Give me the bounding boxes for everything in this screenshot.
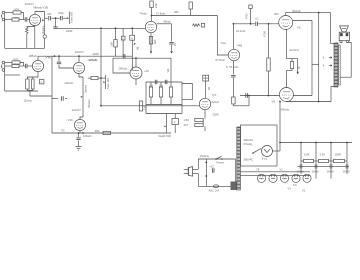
svg-text:Y8: Y8: [256, 167, 260, 171]
node: [248, 95, 250, 97]
capacitor V5 grid: [246, 93, 248, 97]
svg-text:20/450: 20/450: [312, 171, 320, 173]
heater label V4: [256, 167, 260, 171]
label 22.3mA: [290, 48, 299, 52]
capacitor C2 line: [210, 165, 215, 172]
resistor 33K: [103, 131, 111, 134]
label 200R: [335, 153, 341, 157]
wire: [30, 91, 52, 96]
svg-text:115vdc: 115vdc: [83, 134, 92, 138]
node: [205, 162, 207, 164]
capacitor C6: [123, 54, 125, 58]
wire riser1: [300, 143, 302, 162]
transformer OT core: [334, 43, 340, 87]
svg-text:47K: 47K: [14, 7, 20, 11]
svg-text:74vdc: 74vdc: [140, 11, 148, 15]
label Power: [217, 160, 225, 164]
wire: [5, 62, 12, 64]
wire osc right: [181, 82, 183, 114]
wire: [79, 131, 81, 133]
wire: [80, 117, 83, 119]
resistor 47K label: [14, 7, 20, 11]
resistor 3.3K: [316, 159, 331, 162]
bus label 220K: [93, 52, 100, 56]
potentiometer Tone label: [70, 12, 74, 23]
label 300vdc: [292, 9, 301, 13]
svg-text:220K: 220K: [66, 29, 73, 33]
svg-text:470K: 470K: [246, 13, 249, 19]
capacitor C1: [25, 17, 27, 21]
potentiometer Treble: [103, 75, 105, 89]
label 300VAC a: [244, 138, 254, 146]
wire: [88, 77, 91, 79]
svg-text:220K: 220K: [93, 52, 100, 56]
wire tick: [312, 63, 319, 65]
node: [82, 132, 84, 134]
wire PI out top: [233, 23, 255, 25]
pot terminal circle: [43, 35, 46, 38]
node: [135, 57, 137, 59]
wire bus B: [38, 55, 132, 57]
potentiometer Volume: [42, 12, 44, 49]
wire: [174, 125, 176, 134]
svg-text:110vdc: 110vdc: [24, 99, 33, 103]
wire cathode V3A: [27, 72, 38, 79]
wire: [286, 70, 292, 72]
svg-text:V3A: V3A: [46, 56, 51, 60]
label 110vdc: [24, 99, 33, 103]
svg-text:24.2mA: 24.2mA: [236, 29, 245, 33]
svg-text:6.8: 6.8: [293, 183, 297, 187]
terminal NFB box: [201, 23, 204, 27]
wire: [27, 19, 29, 21]
svg-text:12AX7: 12AX7: [72, 108, 82, 112]
label V2A: [144, 69, 149, 73]
svg-text:20/450: 20/450: [327, 171, 335, 173]
svg-text:=C2: =C2: [210, 165, 215, 168]
resistor 15K: [114, 40, 117, 48]
tube V4B: [228, 49, 239, 60]
tube rectifier 5Y3: [262, 146, 273, 157]
capacitor PI top: [256, 22, 258, 26]
label 98vdc: [164, 20, 172, 24]
fuse F1: [213, 185, 218, 188]
svg-text:V4B: V4B: [237, 43, 242, 47]
resistor 470 ch2 label: [14, 64, 19, 67]
node: [205, 175, 207, 177]
tube V3A: [32, 60, 43, 71]
wire: [258, 23, 279, 25]
wire osc mid: [146, 104, 182, 106]
resistor 15K label: [110, 42, 114, 47]
label Polarity: [200, 154, 210, 158]
resistor bias 50: [290, 59, 293, 69]
switch standby: [252, 149, 261, 154]
wire: [78, 140, 80, 146]
svg-text:820: 820: [153, 39, 157, 44]
wire: [51, 17, 59, 19]
wire: [232, 61, 234, 75]
svg-text:Polarity: Polarity: [200, 154, 210, 158]
wire: [113, 58, 130, 73]
svg-text:-127vdc: -127vdc: [88, 58, 98, 62]
node: [300, 142, 302, 144]
label 470K lab: [246, 13, 249, 19]
OT primary arrows: [323, 56, 332, 67]
resistor cathode: [149, 37, 152, 45]
label 33K: [95, 129, 100, 133]
svg-text:470K: 470K: [262, 31, 266, 37]
resistor 470 label: [14, 16, 19, 20]
potentiometer Speed label: [84, 85, 91, 108]
transformer PT core: [237, 127, 241, 190]
wire plate bus: [113, 57, 171, 59]
wire: [205, 81, 207, 98]
wire: [204, 126, 206, 131]
wire: [100, 28, 102, 106]
tube V3A name: [46, 56, 51, 60]
svg-text:22K: 22K: [154, 3, 158, 8]
capacitor PI tail: [231, 75, 235, 77]
label V4A: [212, 93, 217, 97]
wire: [250, 9, 252, 24]
svg-text:V3: V3: [288, 186, 292, 190]
node: [330, 142, 332, 144]
wire speaker right: [340, 43, 351, 78]
svg-text:V5: V5: [272, 100, 276, 104]
svg-text:470: 470: [14, 16, 19, 20]
svg-text:486: 486: [174, 10, 179, 14]
wire primary inner: [205, 159, 207, 186]
wire: [5, 74, 20, 76]
pin 2 label: [75, 128, 77, 131]
potentiometer label 1M: [136, 46, 140, 50]
svg-text:-102vdc: -102vdc: [64, 81, 75, 85]
svg-text:200R: 200R: [335, 153, 341, 157]
wire: [21, 13, 24, 20]
label 115vdc: [83, 134, 92, 138]
resistor plate top label: [154, 3, 158, 8]
wire: [135, 58, 137, 67]
capacitor C3 label: [47, 13, 52, 16]
wire cathode V6: [286, 30, 298, 59]
svg-text:TY3: TY3: [262, 157, 267, 161]
capacitor osc2: [165, 80, 167, 84]
wire: [248, 96, 250, 106]
node: [268, 23, 270, 25]
wire: [122, 40, 124, 56]
wire: [268, 24, 270, 58]
wire riser4: [346, 143, 348, 162]
wire cathode: [150, 33, 152, 54]
wire long drop: [51, 56, 53, 133]
wire: [232, 104, 234, 106]
tube V6: [279, 16, 293, 30]
label R2: [62, 129, 66, 132]
wire arrow down: [297, 59, 299, 75]
svg-text:Vibrato: Vibrato: [87, 99, 91, 108]
wire: [27, 89, 32, 91]
resistor osc3: [169, 82, 172, 105]
node: [58, 55, 60, 57]
wire: [28, 65, 33, 67]
wire: [59, 65, 73, 68]
wire B+ top: [286, 12, 331, 14]
wire: [135, 79, 137, 85]
resistor plate top: [150, 1, 153, 8]
wire osc bottom: [146, 113, 182, 115]
node: [100, 27, 102, 29]
label 6.8K: [304, 153, 310, 157]
resistor NFB: [192, 24, 200, 27]
wire: [115, 47, 117, 56]
label fuse: [209, 189, 220, 193]
node: [279, 101, 281, 103]
label 1.5K: [184, 118, 190, 122]
wire link1: [182, 84, 192, 100]
svg-text:Tone 50K: Tone 50K: [70, 12, 74, 23]
wire cathode V5: [285, 71, 287, 88]
wire rectifier out: [273, 150, 281, 152]
node: [279, 142, 281, 144]
tube V2A: [130, 67, 142, 79]
svg-text:F: F: [174, 120, 176, 124]
wire: [204, 110, 206, 119]
svg-text:4K7: 4K7: [184, 123, 189, 127]
node: [250, 23, 252, 25]
terminal dark box: [231, 182, 237, 191]
wire screen V5: [293, 95, 312, 97]
label vib: [166, 68, 170, 72]
wire: [79, 74, 83, 77]
wire grid V5: [240, 95, 279, 97]
heater label V1: [280, 167, 284, 171]
svg-text:3.3K: 3.3K: [320, 153, 326, 157]
capacitor C4 250pF: [61, 16, 63, 20]
label 1.6vdc: [29, 54, 39, 58]
wire ground ch2: [5, 90, 38, 92]
resistor osc2: [159, 82, 162, 105]
wire: [32, 77, 34, 79]
primary loop: [198, 159, 235, 186]
potentiometer Depth: [164, 114, 166, 134]
resistor 1M series: [139, 101, 146, 111]
input jack J1: [1, 11, 4, 21]
svg-text:V1B: V1B: [43, 5, 49, 9]
resistor 470 ch2: [12, 64, 19, 67]
capacitor C10: [76, 138, 80, 140]
label 390vdc: [281, 108, 290, 112]
potentiometer arrow: [134, 43, 136, 46]
resistor cathode label: [153, 39, 157, 44]
wire: [122, 28, 124, 36]
wire heater b: [240, 175, 310, 177]
wiper arrow: [67, 17, 69, 19]
tube V1 name label: [33, 5, 48, 9]
capacitor C8: [57, 62, 61, 64]
wire: [58, 56, 60, 61]
svg-text:Vib: Vib: [166, 68, 170, 72]
wire: [55, 18, 57, 26]
wire grid V2A: [131, 40, 133, 70]
node: [268, 95, 270, 97]
svg-text:280vdc: 280vdc: [119, 66, 128, 70]
tube V1A: [145, 21, 156, 32]
resistor 47K ch2 label: [13, 57, 19, 61]
wire rail B: [318, 13, 320, 102]
svg-text:300VAC: 300VAC: [244, 138, 254, 142]
svg-text:V3A: V3A: [68, 118, 73, 122]
svg-text:12AX7: 12AX7: [75, 50, 85, 54]
svg-text:Tone 10K: Tone 10K: [106, 78, 110, 89]
svg-text:Vibrato: Vibrato: [33, 5, 42, 9]
resistor cathode ch2: [26, 79, 29, 89]
capacitors filter 20uF: [297, 161, 351, 179]
label 67.8vdc: [216, 58, 226, 62]
wire: [151, 8, 153, 22]
tube V4A: [199, 98, 210, 109]
svg-text:Volume: Volume: [42, 25, 45, 34]
capacitor cathode ch2: [32, 79, 35, 89]
node: [233, 23, 235, 25]
capacitor C5: [53, 27, 57, 28]
label 57.8vdc: [156, 11, 166, 15]
wire plate V1: [35, 12, 45, 15]
svg-text:7mA: 7mA: [221, 41, 227, 45]
potentiometer Volume label: [42, 25, 45, 34]
wire ground jack: [4, 14, 6, 49]
node: [151, 15, 153, 17]
terminal small box: [40, 80, 44, 85]
svg-text:98vdc: 98vdc: [164, 20, 172, 24]
capacitor C3 0.022: [49, 16, 51, 20]
wire PI grid: [217, 16, 228, 56]
svg-text:20/450: 20/450: [297, 171, 305, 173]
wire: [5, 65, 12, 67]
resistor 470: [12, 18, 19, 21]
svg-text:33K: 33K: [95, 129, 100, 133]
resistor 47K: [13, 11, 21, 14]
tube V1 type label: [25, 2, 35, 6]
wire screen V6: [293, 20, 312, 22]
capacitor C4 label: [58, 11, 64, 15]
svg-text:15K: 15K: [110, 42, 114, 47]
node: [318, 101, 320, 103]
label 5Y3: [262, 157, 267, 161]
resistor tone box: [91, 77, 98, 80]
wire cathode V1: [34, 26, 36, 49]
node: [55, 17, 57, 19]
svg-text:390vdc: 390vdc: [281, 108, 290, 112]
input jack J2: [1, 61, 4, 71]
wire: [171, 24, 173, 42]
node: [131, 27, 133, 29]
capacitor osc labels: [149, 84, 164, 87]
svg-text:A: A: [131, 36, 133, 40]
wire osc left: [145, 82, 147, 114]
node: [78, 132, 80, 134]
wire signal row: [45, 17, 48, 19]
ground: [76, 147, 82, 151]
label 0.1: [255, 17, 259, 20]
wire: [78, 56, 80, 62]
svg-text:5: 78.2vdc: 5: 78.2vdc: [226, 65, 239, 69]
svg-text:1M: 1M: [142, 106, 146, 110]
resistor 6.8K: [301, 159, 316, 162]
label 98 rotated: [207, 87, 211, 90]
resistor 470K top: [249, 5, 252, 9]
label -102vdc: [64, 81, 75, 85]
wire: [27, 26, 35, 29]
tube V5: [279, 88, 293, 102]
label -127vdc: [88, 58, 98, 62]
wire bus A: [56, 27, 146, 29]
node: [115, 27, 117, 29]
resistor 470K a: [267, 58, 270, 71]
svg-text:77A: 77A: [212, 93, 217, 97]
wire: [20, 63, 24, 67]
capacitor C7: [25, 64, 27, 68]
wire screen rail: [311, 21, 313, 96]
label V4B: [237, 43, 242, 47]
svg-text:300VAC: 300VAC: [244, 158, 254, 162]
wire: [26, 34, 28, 49]
svg-text:47K: 47K: [13, 57, 19, 61]
wire B line: [152, 15, 218, 17]
tube V1B: [29, 14, 40, 25]
svg-text:Speed: Speed: [84, 85, 88, 93]
terminal box A: [121, 36, 125, 40]
resistor bias label: [297, 66, 301, 69]
potentiometer Depth label: [159, 134, 172, 138]
wire bus C: [52, 132, 171, 134]
wire: [5, 19, 12, 21]
wire V5 drop: [279, 102, 281, 152]
svg-text:A6C 1A7: A6C 1A7: [209, 189, 220, 193]
resistor hang: [189, 2, 192, 16]
bus label 270vdc: [89, 58, 99, 62]
tube V3 type label: [75, 50, 85, 54]
node: [78, 55, 80, 57]
wire plate V3A: [37, 56, 39, 60]
wire: [19, 19, 25, 21]
wire: [5, 12, 13, 14]
wire heater a: [240, 171, 310, 173]
svg-text:220+K: 220+K: [212, 100, 220, 104]
resistor cathode R3 zigzag: [25, 27, 28, 34]
wire: [202, 120, 204, 125]
resistor cathode PI2: [195, 123, 203, 126]
wire: [63, 17, 67, 19]
label V5: [272, 100, 276, 104]
svg-text:1.5K: 1.5K: [184, 118, 190, 122]
wire: [232, 24, 234, 50]
wire riser2: [315, 143, 317, 162]
tube heaters V1-V5: [257, 174, 311, 182]
resistor osc1: [149, 82, 152, 105]
bus label 220K: [66, 29, 73, 33]
label 74vdc: [140, 11, 148, 15]
resistor 470K a label: [262, 31, 266, 37]
tube V3B name: [68, 118, 73, 122]
wire speaker left: [340, 42, 342, 45]
label V6: [297, 26, 301, 30]
wire ground bus: [5, 47, 45, 49]
label 300VAC b: [244, 158, 254, 162]
svg-text:V6: V6: [297, 26, 301, 30]
svg-text:Power: Power: [217, 160, 225, 164]
wire bus D: [101, 105, 199, 107]
